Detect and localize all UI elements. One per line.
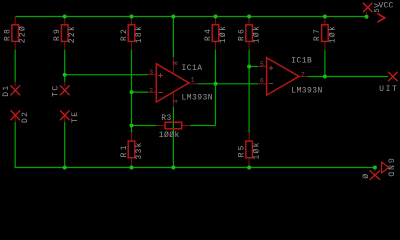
svg-text:7: 7 (301, 71, 305, 78)
svg-text:UIT: UIT (379, 85, 399, 94)
svg-text:1Øk: 1Øk (219, 25, 228, 43)
svg-text:6: 6 (260, 78, 264, 85)
svg-text:3: 3 (149, 69, 153, 76)
svg-text:IC1A: IC1A (182, 64, 203, 73)
svg-text:TC: TC (52, 84, 61, 96)
svg-text:22Ø: 22Ø (19, 25, 28, 43)
svg-text:1Øk: 1Øk (328, 25, 337, 43)
svg-text:VCC: VCC (379, 2, 394, 11)
svg-text:R6: R6 (237, 27, 246, 41)
svg-text:GND: GND (386, 158, 395, 178)
svg-text:Ø: Ø (359, 174, 368, 180)
svg-text:2: 2 (149, 87, 153, 94)
svg-text:1Øk: 1Øk (253, 25, 262, 43)
svg-text:D1: D1 (2, 84, 11, 96)
svg-text:IC1B: IC1B (291, 57, 312, 66)
svg-text:R3: R3 (161, 114, 172, 123)
svg-text:R7: R7 (313, 27, 322, 41)
svg-text:18k: 18k (135, 25, 144, 43)
svg-text:R5: R5 (237, 143, 246, 157)
svg-text:TE: TE (71, 111, 80, 123)
svg-text:5: 5 (260, 61, 264, 68)
svg-text:R1: R1 (120, 143, 129, 157)
svg-text:8: 8 (173, 61, 180, 65)
svg-text:1ØØk: 1ØØk (159, 131, 180, 140)
svg-text:1Øk: 1Øk (253, 141, 262, 159)
svg-text:4: 4 (173, 99, 180, 103)
svg-text:1: 1 (191, 77, 195, 84)
svg-text:R2: R2 (120, 27, 129, 41)
svg-text:D2: D2 (21, 111, 30, 123)
svg-text:22k: 22k (68, 25, 77, 43)
svg-text:LM393N: LM393N (291, 86, 323, 95)
svg-text:LM393N: LM393N (182, 94, 214, 103)
svg-text:R9: R9 (53, 27, 62, 41)
svg-text:R8: R8 (4, 27, 13, 41)
svg-text:R4: R4 (204, 27, 213, 41)
svg-text:33k: 33k (135, 141, 144, 159)
